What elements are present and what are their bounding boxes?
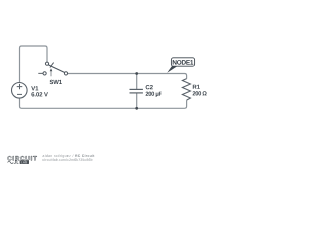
node NODE1 callout pointer <box>167 66 177 73</box>
SW1 actuator arrow <box>50 68 53 71</box>
SW1 closed throw terminal <box>64 72 67 75</box>
wire: top rail from SW1 right throw to R1 top <box>68 74 187 79</box>
V1 minus terminal mark <box>17 93 22 95</box>
node NODE1 text <box>173 60 194 65</box>
node NODE1 box <box>171 58 194 66</box>
value 200 uF <box>146 92 162 97</box>
capacitor C2 <box>130 89 143 93</box>
node junction dot bottom (C2/rail) <box>135 107 138 110</box>
switch SW1 <box>38 62 67 76</box>
resistor R1 <box>182 79 190 101</box>
SW1 pole terminal <box>45 62 48 65</box>
SW1 blade <box>48 65 64 73</box>
value 6.02 V <box>31 92 48 96</box>
watermark text line 2 <box>43 158 93 161</box>
label R1 <box>193 85 200 89</box>
SW1 open throw terminal <box>43 72 46 75</box>
label SW1 <box>50 80 62 84</box>
voltage source V1 <box>11 83 27 99</box>
wire: C2 top lead <box>136 74 138 90</box>
label C2 <box>146 85 153 89</box>
wire: V1 top lead up, across top, down to SW1 common <box>20 46 48 83</box>
wire: V1 bottom lead down, bottom rail to R1 bottom <box>20 98 187 108</box>
V1 plus terminal mark <box>17 84 23 89</box>
watermark text line 1 <box>43 154 74 157</box>
V1 body circle <box>11 83 27 99</box>
value 200 Ohm <box>193 91 207 95</box>
wire: SW1 open-throw stub <box>38 72 43 74</box>
SW1 actuator tick <box>50 63 54 68</box>
label V1 <box>31 86 38 90</box>
wire: C2 bottom lead <box>136 93 138 108</box>
node junction dot top (C2/rail) <box>135 72 138 75</box>
CircuitLab watermark logo <box>8 156 37 164</box>
